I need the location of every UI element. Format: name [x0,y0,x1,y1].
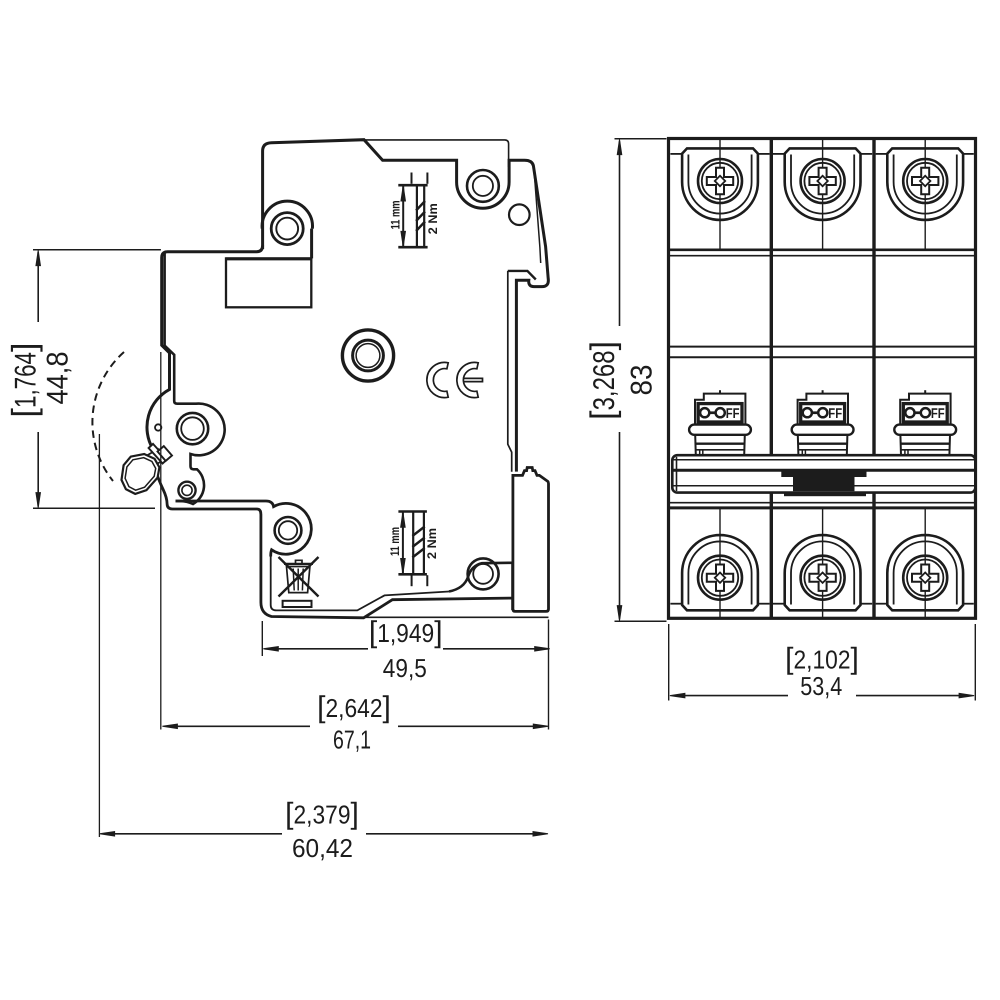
svg-text:2 Nm: 2 Nm [426,203,440,234]
svg-text:67,1: 67,1 [333,725,371,755]
svg-text:11 mm: 11 mm [388,200,402,229]
svg-text:11 mm: 11 mm [388,527,402,556]
svg-text:83: 83 [626,365,659,396]
svg-text:[3,268]: [3,268] [584,341,622,420]
svg-text:[2,379]: [2,379] [285,798,359,831]
svg-text:[2,642]: [2,642] [317,691,391,724]
svg-text:2 Nm: 2 Nm [425,528,439,559]
svg-text:53,4: 53,4 [800,671,842,701]
svg-text:[1,764]: [1,764] [6,343,44,418]
svg-text:FF: FF [931,406,945,422]
svg-text:60,42: 60,42 [292,833,353,863]
svg-text:FF: FF [828,406,842,422]
svg-text:44,8: 44,8 [42,352,75,405]
svg-text:[1,949]: [1,949] [369,616,443,649]
svg-text:FF: FF [726,406,740,422]
svg-text:49,5: 49,5 [383,653,427,683]
